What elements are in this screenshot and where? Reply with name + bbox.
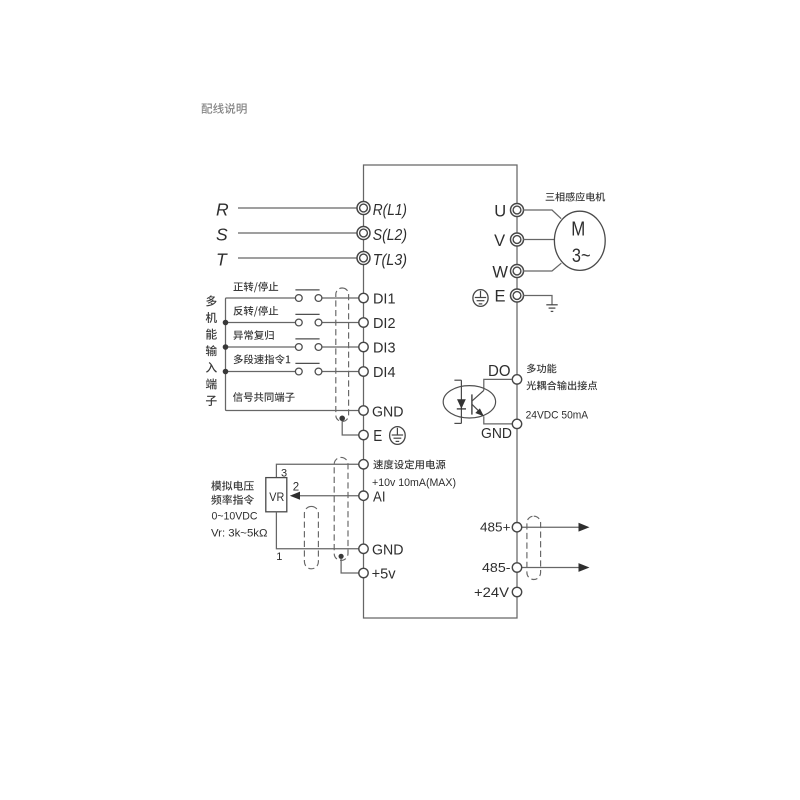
wire shield to E [342, 421, 359, 435]
svg-text:T(L3): T(L3) [373, 252, 407, 269]
terminal T(L3) [357, 252, 370, 265]
svg-text:S: S [216, 224, 228, 244]
phototransistor emitter with arrow [472, 404, 482, 414]
wire E to chassis ground [523, 296, 552, 305]
label 三相感应电机 [546, 192, 605, 202]
label 光耦合输出接点 [526, 381, 597, 391]
svg-text:Vr: 3k~5kΩ: Vr: 3k~5kΩ [211, 528, 268, 540]
wire V to motor [523, 239, 555, 241]
terminal E (left) [359, 430, 368, 439]
label 反转/停止 [233, 306, 278, 317]
svg-text:W: W [492, 263, 508, 281]
cable shield (analog group) [334, 457, 348, 560]
terminal DI3 [359, 342, 368, 351]
label 正转/停止 [233, 282, 278, 293]
terminal AI [359, 491, 368, 500]
svg-text:U: U [494, 202, 506, 220]
label 多功能 [527, 364, 557, 374]
terminal GND (DO) [512, 419, 521, 428]
terminal 485- [512, 563, 521, 572]
svg-text:DI1: DI1 [373, 291, 396, 307]
svg-text:DI4: DI4 [373, 365, 396, 381]
terminal GND (digital) [359, 406, 368, 415]
svg-text:485-: 485- [482, 561, 511, 575]
wire W to motor [523, 263, 561, 271]
wire DI4 row [226, 371, 296, 373]
terminal V [511, 233, 524, 246]
terminal R(L1) [357, 202, 370, 215]
optocoupler LED cathode bar [457, 408, 466, 410]
terminal E right [511, 289, 524, 302]
cable shield (485) [527, 516, 541, 579]
optocoupler LED anode lead [460, 380, 462, 423]
svg-text:0~10VDC: 0~10VDC [212, 511, 258, 523]
svg-text:E: E [494, 288, 505, 306]
label 速度设定用电源 [373, 460, 445, 470]
terminal DI2 [359, 318, 368, 327]
optocoupler U1 [443, 386, 495, 418]
svg-text:VR: VR [269, 492, 284, 504]
junction dot on bus [223, 320, 229, 326]
svg-text:DI2: DI2 [373, 316, 396, 332]
label 多段速指令1 [234, 354, 291, 364]
svg-text:24VDC 50mA: 24VDC 50mA [526, 409, 589, 421]
shield junction dot [339, 416, 345, 422]
svg-text:2: 2 [293, 481, 299, 493]
svg-text:S(L2): S(L2) [373, 227, 407, 244]
svg-text:T: T [216, 249, 228, 269]
terminal +10v [359, 460, 368, 469]
optocoupler LED triangle [457, 399, 466, 409]
terminal S(L2) [357, 227, 370, 240]
wire +10v supply to VR pin3 [276, 464, 358, 477]
terminal U [511, 204, 524, 217]
cable shield (DI group) [336, 288, 349, 422]
label 模拟电压 [211, 481, 253, 491]
label 信号共同端子 [233, 392, 295, 402]
terminal +24V [512, 587, 521, 596]
shield junction dot (analog) [339, 554, 344, 559]
wire S input [238, 232, 357, 234]
svg-text:E: E [373, 428, 382, 445]
switch DI4 (多段速指令1) [295, 362, 319, 364]
wire DI2 row [226, 322, 296, 324]
wire shield to +5v [341, 559, 359, 574]
wire T input [238, 257, 357, 259]
optocoupler phototransistor base [471, 394, 473, 414]
junction dot on bus [223, 369, 229, 375]
terminal GND (analog) [359, 544, 368, 553]
junction dot on bus [223, 344, 229, 350]
arrow AI to VR wiper (pin 2) [299, 495, 359, 497]
label 频率指令 [211, 495, 254, 505]
inverter main box [364, 165, 518, 618]
chassis ground symbol [546, 304, 557, 306]
wire 485- out [522, 567, 581, 569]
svg-text:DO: DO [488, 363, 511, 380]
terminal +5v [359, 568, 368, 577]
svg-text:+24V: +24V [474, 585, 509, 600]
arrowhead 485- [579, 563, 590, 572]
wire U to motor [523, 210, 561, 219]
arrowhead pin2 [290, 492, 300, 500]
svg-text:V: V [494, 232, 505, 250]
motor M 3~ [554, 211, 605, 270]
terminal DI1 [359, 293, 368, 302]
earth symbol (circle PE) left [390, 427, 406, 445]
wire 485+ out [522, 526, 581, 528]
svg-text:DI3: DI3 [373, 340, 396, 356]
svg-text:1: 1 [276, 551, 282, 563]
switch DI2 (反转/停止) [295, 313, 319, 315]
wire VR pin1 to GND [276, 512, 358, 549]
terminal DI4 [359, 367, 368, 376]
svg-text:GND: GND [481, 425, 512, 442]
wire DI3 row [226, 346, 296, 348]
switch DI3 (异常复归) [295, 338, 319, 340]
vertical label 多机能输入端子 [206, 295, 217, 406]
terminal 485+ [512, 523, 521, 532]
svg-text:3~: 3~ [572, 246, 591, 267]
terminal W [511, 265, 524, 278]
wire R input [238, 207, 357, 209]
wire DO to optocoupler collector [484, 379, 513, 390]
wire emitter to GND terminal [484, 416, 513, 424]
svg-text:GND: GND [372, 404, 404, 420]
svg-text:GND: GND [372, 543, 404, 559]
svg-text:485+: 485+ [480, 521, 511, 535]
arrowhead 485+ [579, 523, 590, 532]
wire common bus with GND feed [226, 298, 359, 411]
earth symbol (circle PE) right [473, 290, 488, 307]
svg-text:AI: AI [373, 488, 386, 505]
svg-text:R: R [216, 199, 229, 219]
svg-text:M: M [571, 219, 585, 241]
phototransistor collector [472, 390, 484, 401]
label 异常复归 [233, 330, 273, 340]
potentiometer VR [266, 478, 287, 512]
wire DI1 row [322, 297, 359, 299]
switch DI1 (正转/停止) [295, 289, 319, 291]
svg-text:+5v: +5v [372, 567, 397, 583]
terminal DO [512, 375, 521, 384]
svg-text:+10v 10mA(MAX): +10v 10mA(MAX) [372, 477, 456, 489]
title 配线说明 [202, 103, 247, 114]
svg-text:R(L1): R(L1) [373, 202, 407, 219]
cable shield (VR lower wire) [304, 506, 318, 568]
